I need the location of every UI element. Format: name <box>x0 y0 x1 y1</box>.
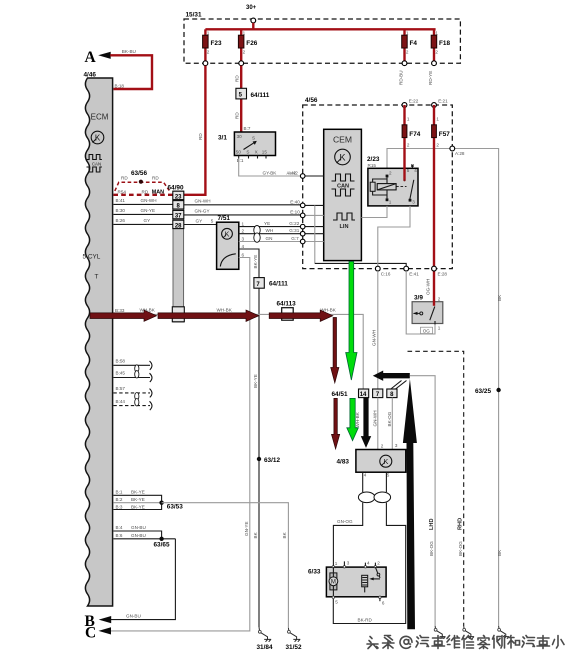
node 30+ battery feed <box>246 5 257 23</box>
fuse F23 <box>203 29 222 65</box>
svg-text:BK-OG: BK-OG <box>387 411 392 426</box>
svg-text:E:22: E:22 <box>409 99 419 104</box>
svg-text:3/9: 3/9 <box>414 294 423 301</box>
svg-text:F57: F57 <box>439 131 450 138</box>
svg-text:GN-BU: GN-BU <box>131 525 146 530</box>
node G:7 and wire to CEM <box>291 236 323 244</box>
svg-text:F18: F18 <box>439 40 450 47</box>
connector 64/111 pin 7 <box>254 278 288 289</box>
svg-text:G:22: G:22 <box>289 221 299 226</box>
svg-text:BK-OG: BK-OG <box>429 541 434 556</box>
svg-text:BK-YE: BK-YE <box>253 374 258 388</box>
svg-text:E:40: E:40 <box>290 200 300 205</box>
4/83 pin 4 wire to 6/33 pin 1 (GN-OG) <box>333 472 366 565</box>
svg-text:GN-WH: GN-WH <box>371 330 376 346</box>
svg-text:31/52: 31/52 <box>286 644 302 651</box>
immobilizer unit 7/51 <box>217 215 245 269</box>
ground 31/52 <box>286 628 302 651</box>
wire RD from F23 to 64/90 pin 23 <box>184 66 206 195</box>
wire GY ECM B:26 to 64/90 pin 28 <box>113 218 172 224</box>
svg-text:WH: WH <box>266 228 274 233</box>
svg-text:F23: F23 <box>211 40 222 47</box>
black arrow WH-BK 64/51 pin 14 to 4/83 (thick) <box>355 398 371 448</box>
svg-text:GN-WH: GN-WH <box>141 198 157 203</box>
svg-text:RD: RD <box>198 133 203 140</box>
svg-text:64/111: 64/111 <box>269 281 288 288</box>
wire RD supply bus from 30+ <box>205 23 435 29</box>
svg-text:4: 4 <box>414 168 417 173</box>
svg-text:B:6: B:6 <box>116 533 123 538</box>
thick arrow WH-BK segment 4 (down to 64/51) <box>331 318 339 383</box>
svg-text:G:31: G:31 <box>289 228 299 233</box>
svg-text:63/53: 63/53 <box>167 503 183 510</box>
svg-text:3: 3 <box>412 200 415 205</box>
svg-text:5: 5 <box>335 600 338 605</box>
svg-text:G:7: G:7 <box>291 236 299 241</box>
svg-text:50: 50 <box>236 150 242 155</box>
svg-text:R54: R54 <box>118 189 127 194</box>
wire relay pin 1 to CEM <box>361 206 387 218</box>
twisted pair symbol (pump leads) <box>358 492 390 503</box>
wire to RHD ground (variant, dashed) <box>408 351 464 626</box>
thick arrow WH-BK segment 5 (64/51 to 4/83) <box>331 398 339 449</box>
ground at 63/25 lead (bottom right) <box>498 626 509 639</box>
node C:16 <box>375 266 390 276</box>
wire BK splice 63/53 to ground 31/52 <box>162 503 289 628</box>
svg-text:E:10: E:10 <box>290 210 300 215</box>
svg-text:GN-GY: GN-GY <box>195 209 210 214</box>
fuse F26 <box>238 29 257 65</box>
svg-text:GY: GY <box>144 218 151 223</box>
svg-text:5: 5 <box>211 218 214 223</box>
thick arrow WH-BK segment 1 (ECM out) <box>90 310 157 321</box>
connector C arrow <box>85 625 111 642</box>
svg-text:6/33: 6/33 <box>308 569 321 576</box>
svg-text:GY-BK: GY-BK <box>263 170 278 175</box>
black arrow ground path up from fuel pump <box>403 379 417 629</box>
svg-text:E:21: E:21 <box>438 99 448 104</box>
svg-text:RD: RD <box>234 75 239 82</box>
svg-text:2: 2 <box>438 296 441 301</box>
wire GN-BU splice 63/65 to connector B <box>101 539 175 620</box>
svg-text:4/83: 4/83 <box>337 458 350 465</box>
svg-text:B:33: B:33 <box>115 308 125 313</box>
svg-text:1: 1 <box>435 31 438 36</box>
wire GN-WH 64/90 pin 8 to E:40 <box>184 199 301 205</box>
connector 64/113 <box>277 300 297 320</box>
ignition switch 3/1 <box>218 132 276 163</box>
svg-text:GN-YE: GN-YE <box>141 208 156 213</box>
svg-text:GN-BU: GN-BU <box>131 533 146 538</box>
node E:28 <box>432 266 448 276</box>
twisted pair loops <box>254 226 260 243</box>
svg-text:LIN: LIN <box>339 224 348 230</box>
svg-text:K: K <box>339 153 345 163</box>
svg-text:64/111: 64/111 <box>251 92 270 99</box>
wires BK-YE ECM B:1,B:2,B:3 to splice 63/53 <box>113 490 161 510</box>
inertia switch 3/9 <box>412 294 443 333</box>
svg-text:B:7: B:7 <box>244 126 251 131</box>
wire RD-YE label <box>428 71 433 85</box>
svg-text:2: 2 <box>207 50 210 55</box>
svg-text:C:16: C:16 <box>381 271 391 276</box>
fuel pump module 4/83 <box>337 450 406 473</box>
svg-text:GN-OG: GN-OG <box>337 519 353 524</box>
svg-text:BK: BK <box>253 531 258 538</box>
splice 63/25 <box>475 388 501 395</box>
svg-text:63/56: 63/56 <box>131 170 147 177</box>
wire BK-BU from connector A to ECM B:18 <box>110 49 152 89</box>
wire relay pin 3 to C:16 <box>378 206 410 266</box>
ECM CAN stub B:44 (dashed) <box>113 399 152 410</box>
svg-text:3: 3 <box>395 443 398 448</box>
wire WH 7/51 pin 2 to G:31 (twisted) <box>239 228 301 234</box>
svg-text:1: 1 <box>389 200 392 205</box>
node A:42 and wire to CEM <box>288 170 323 178</box>
svg-text:F74: F74 <box>409 131 420 138</box>
watermark 头条 @汽车维修案例和汽车小 <box>367 636 564 649</box>
svg-text:BK-YE: BK-YE <box>131 504 145 509</box>
svg-text:GY: GY <box>196 218 203 223</box>
thick arrow WH-BK segment 3 <box>269 310 333 321</box>
wire GN-WH C:16 down to 64/51 pin 7 <box>371 271 378 389</box>
svg-text:28: 28 <box>175 223 182 229</box>
node E:21 <box>432 99 448 108</box>
svg-text:64/90: 64/90 <box>168 185 184 192</box>
wire GY-BK from 3/1 B:1 to A:42 <box>239 159 301 177</box>
svg-text:MAN: MAN <box>152 189 164 195</box>
svg-text:23: 23 <box>175 194 182 200</box>
svg-text:2: 2 <box>406 50 409 55</box>
wire GN-WH 64/51 pin 7 to 4/83 pin 2 <box>373 398 384 450</box>
svg-text:B:26: B:26 <box>116 218 126 223</box>
wire to LHD ground <box>410 376 435 626</box>
ECM CAN stub B:57 (dashed) <box>113 386 152 398</box>
twisted loop B:58/B:45 <box>135 365 139 378</box>
svg-text:CAN: CAN <box>92 161 101 166</box>
junction box 15/31 dashed enclosure <box>184 12 460 64</box>
svg-text:B:45: B:45 <box>116 371 126 376</box>
svg-text:1: 1 <box>242 222 245 227</box>
svg-text:2: 2 <box>381 444 384 449</box>
svg-text:14: 14 <box>360 392 367 398</box>
svg-text:1: 1 <box>406 31 409 36</box>
thick arrow WH-BK segment 2 <box>158 310 259 321</box>
wire RD from F26 through 64/111 pin 5 to 3/1 <box>234 66 251 132</box>
ECM CAN stub B:45 (HS-CAN lo) <box>113 371 152 382</box>
svg-text:2: 2 <box>435 50 438 55</box>
fuse F4 <box>402 29 418 65</box>
twisted loop B:57/B:44 <box>135 393 139 406</box>
svg-text:A:42: A:42 <box>288 170 298 175</box>
svg-text:2: 2 <box>243 50 246 55</box>
svg-text:2: 2 <box>389 171 392 176</box>
node E:41 <box>404 266 419 276</box>
fuel pump unit 6/33 <box>308 560 386 605</box>
svg-text:1: 1 <box>407 117 410 122</box>
svg-text:GN-YE: GN-YE <box>244 521 249 536</box>
svg-text:3: 3 <box>242 236 245 241</box>
splice 63/65 <box>154 537 170 549</box>
svg-text:2: 2 <box>407 143 410 148</box>
relay 2/23 <box>367 156 418 206</box>
svg-text:64/113: 64/113 <box>277 300 297 307</box>
splice 63/56 on dashed RD wire (MAN) <box>113 170 172 195</box>
svg-text:B:2: B:2 <box>116 497 123 502</box>
splice 63/53 <box>159 501 183 511</box>
svg-text:K: K <box>383 457 388 466</box>
wire BK-YE/BK from 64/111 pin 7 to ground 31/84 <box>253 288 259 627</box>
node A:28 <box>450 146 465 156</box>
ground 31/84 <box>257 627 273 651</box>
svg-text:63/25: 63/25 <box>475 388 491 395</box>
wire YE 7/51 pin 1 to G:22 (twisted) <box>239 221 301 226</box>
svg-text:S: S <box>252 136 255 141</box>
fuse F57 <box>426 105 451 306</box>
svg-text:1: 1 <box>436 117 439 122</box>
svg-text:A:28: A:28 <box>455 151 465 156</box>
svg-text:B:1: B:1 <box>237 158 244 163</box>
svg-text:B:58: B:58 <box>116 358 126 363</box>
link from ground-path corner to 64/51 pin 8 <box>391 381 407 390</box>
svg-text:BK-YE: BK-YE <box>253 255 258 269</box>
svg-text:30: 30 <box>237 134 243 139</box>
svg-text:B:57: B:57 <box>116 386 126 391</box>
connector 64/111 pin 5 <box>236 88 270 99</box>
svg-text:CEM: CEM <box>333 135 352 145</box>
svg-text:A: A <box>85 49 97 66</box>
wire GN-WH ECM B:41 to 64/90 pin 8 <box>113 198 172 204</box>
svg-text:31/84: 31/84 <box>257 644 273 651</box>
svg-text:RD-YE: RD-YE <box>428 71 433 85</box>
wire relay pin 2 to A:28 and ground lead BK <box>387 149 502 627</box>
black arrow pointing left into 64/51 (ground path) <box>373 371 410 381</box>
svg-text:T: T <box>95 274 99 281</box>
svg-text:15/31: 15/31 <box>186 12 202 19</box>
svg-text:YE: YE <box>264 221 270 226</box>
svg-text:5 CYL: 5 CYL <box>83 254 101 261</box>
svg-text:X: X <box>255 150 258 155</box>
svg-text:B:30: B:30 <box>116 208 126 213</box>
svg-text:1: 1 <box>243 31 246 36</box>
splice 63/12 <box>257 457 281 464</box>
wire GY 64/90 pin 28 to 7/51 pin 5 <box>184 218 217 224</box>
svg-text:BK-OG: BK-OG <box>458 541 463 556</box>
wires GN-BU ECM B:4,B:6 to splice 63/65 <box>113 525 175 539</box>
svg-text:M: M <box>331 580 336 586</box>
svg-text:4: 4 <box>367 560 370 565</box>
wire E:41 down to 3/9 pin 1 <box>406 271 435 334</box>
fuse F18 <box>431 29 450 65</box>
wire BK-OG 64/51 pin 8 to 4/83 pin 3 <box>387 398 398 450</box>
svg-text:B:4: B:4 <box>116 525 123 530</box>
svg-text:2: 2 <box>242 229 245 234</box>
svg-text:BK-RD: BK-RD <box>358 618 373 623</box>
svg-text:WH-BK: WH-BK <box>217 308 233 313</box>
connector 64/90 strip <box>168 185 185 323</box>
svg-text:63/12: 63/12 <box>264 457 280 464</box>
svg-text:2: 2 <box>436 143 439 148</box>
svg-text:B:18: B:18 <box>115 84 125 89</box>
connector 64/51 pins 14 7 8 <box>332 389 398 398</box>
svg-text:6: 6 <box>242 253 245 258</box>
svg-text:4: 4 <box>242 244 245 249</box>
svg-text:GN-WH: GN-WH <box>373 410 378 426</box>
node G:22 and wire to CEM <box>289 221 323 229</box>
green arrow 64/51 to 4/83 (LIN) <box>347 398 359 440</box>
svg-text:BK-YE: BK-YE <box>131 497 145 502</box>
wire GN-YE ECM B:30 to 64/90 pin 37 <box>113 208 172 214</box>
svg-text:2: 2 <box>377 561 380 566</box>
svg-text:RD: RD <box>142 189 149 194</box>
svg-text:B:44: B:44 <box>116 399 126 404</box>
svg-text:B:3: B:3 <box>116 504 123 509</box>
wire BK-YE 7/51 pin 4 to 64/111 pin 7 <box>239 249 259 278</box>
svg-text:F4: F4 <box>410 40 418 47</box>
node G:31 and wire to CEM <box>289 228 323 236</box>
svg-text:WH-BK: WH-BK <box>355 411 360 427</box>
wire RD-BU label <box>398 70 403 85</box>
svg-text:BK-YE: BK-YE <box>131 490 145 495</box>
svg-text:64/51: 64/51 <box>332 391 348 398</box>
svg-text:E:41: E:41 <box>409 271 419 276</box>
svg-text:BK: BK <box>497 549 502 556</box>
ECM CAN stub B:58 (HS-CAN hi) <box>113 358 152 370</box>
central electronic module enclosure 4/56 <box>303 97 453 269</box>
svg-text:1: 1 <box>207 31 210 36</box>
node E:40 and wire to CEM <box>290 200 323 208</box>
svg-text:R15: R15 <box>368 163 377 168</box>
wire GN 7/51 pin 3 to G:7 (twisted) <box>239 236 301 242</box>
svg-text:RD: RD <box>234 112 239 119</box>
svg-text:K: K <box>95 134 101 143</box>
green arrow CEM to 64/51 (LIN) <box>346 262 357 381</box>
svg-text:GN: GN <box>266 236 273 241</box>
svg-text:5: 5 <box>387 473 390 478</box>
wire WH-BK ECM B:33 to 64/51 pin 14 (thin) <box>113 308 364 390</box>
svg-text:7/51: 7/51 <box>218 215 231 222</box>
svg-text:2/23: 2/23 <box>367 156 380 163</box>
svg-text:OG: OG <box>423 328 431 333</box>
svg-text:CAN: CAN <box>337 183 349 189</box>
svg-text:ECM: ECM <box>91 113 109 122</box>
svg-text:S: S <box>246 150 249 155</box>
svg-text:RD-BU: RD-BU <box>398 70 403 85</box>
svg-text:30+: 30+ <box>246 5 257 11</box>
ECM 4/46 <box>83 72 113 607</box>
svg-text:5: 5 <box>407 168 410 173</box>
ground LHD <box>434 626 445 639</box>
4/83 pin 5 wire to 6/33 pin 5 (BK-RD) <box>333 472 405 623</box>
svg-text:15: 15 <box>262 150 268 155</box>
svg-text:37: 37 <box>175 214 182 220</box>
svg-text:4: 4 <box>364 473 367 478</box>
svg-text:63/65: 63/65 <box>154 542 170 549</box>
svg-text:RHD: RHD <box>458 518 464 530</box>
svg-text:B:1: B:1 <box>116 490 123 495</box>
wire GN-YE 7/51 pin 6 to connector C <box>101 258 250 631</box>
node E:22 <box>402 99 419 108</box>
wire from E:40 row down and across to E:41 <box>315 205 406 266</box>
node E:10 and wire to CEM <box>290 210 323 218</box>
ground RHD <box>463 626 474 639</box>
svg-text:RD: RD <box>121 176 128 181</box>
svg-text:RD: RD <box>152 176 159 181</box>
wire GN-GY 64/90 pin 37 to E:10 <box>184 209 301 215</box>
svg-text:BK-BU: BK-BU <box>122 49 136 54</box>
svg-text:1: 1 <box>438 326 441 331</box>
svg-text:OG-WH: OG-WH <box>426 279 431 295</box>
svg-text:E:28: E:28 <box>438 271 448 276</box>
svg-text:3/1: 3/1 <box>218 135 227 142</box>
svg-text:BK: BK <box>497 294 502 301</box>
svg-text:4/56: 4/56 <box>305 97 318 104</box>
svg-text:1: 1 <box>335 561 338 566</box>
svg-text:LHD: LHD <box>429 519 435 531</box>
svg-text:GN-WH: GN-WH <box>195 199 211 204</box>
fuse F74 <box>402 105 421 181</box>
svg-text:6: 6 <box>382 601 385 606</box>
svg-text:F26: F26 <box>246 40 257 47</box>
connector B arrow <box>85 613 112 630</box>
CEM module box <box>324 129 362 260</box>
connector A arrow (to other page) <box>85 49 111 66</box>
svg-text:3: 3 <box>347 560 350 565</box>
svg-text:B: B <box>85 613 95 630</box>
svg-text:B:41: B:41 <box>116 198 126 203</box>
svg-text:GN-BU: GN-BU <box>126 614 141 619</box>
svg-text:BK: BK <box>282 531 287 538</box>
